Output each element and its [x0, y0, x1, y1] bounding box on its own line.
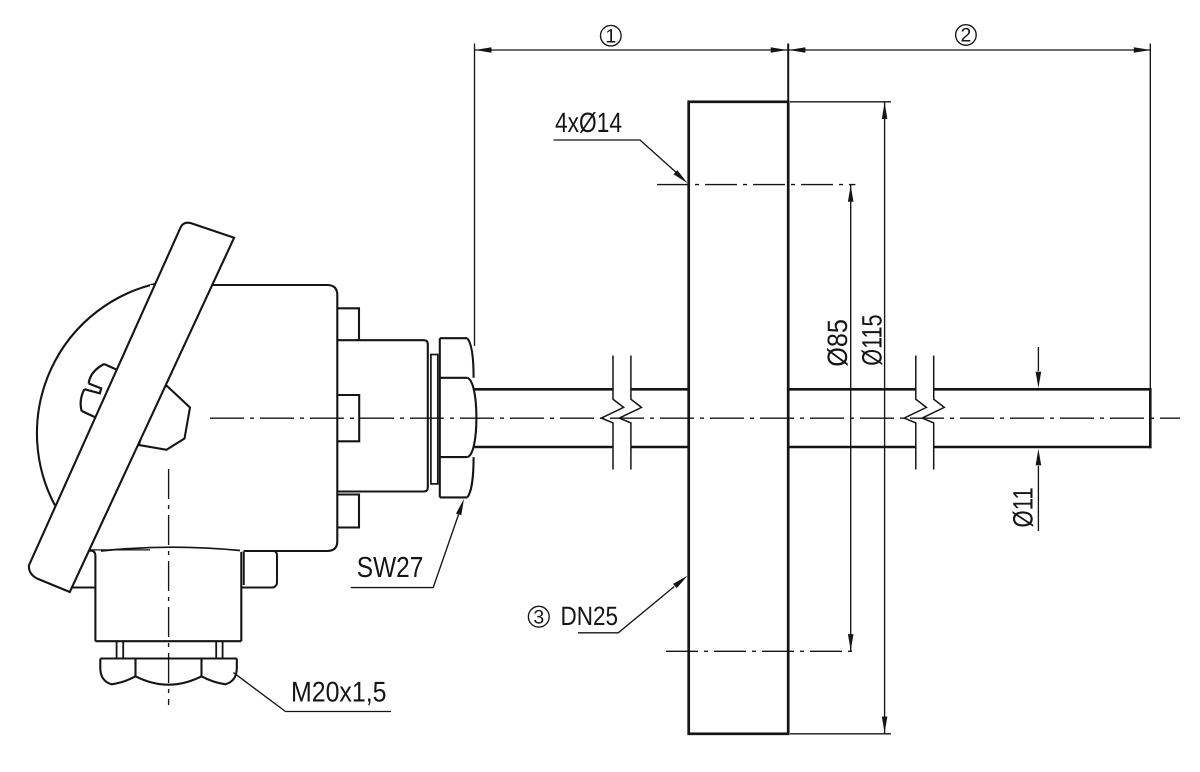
svg-text:SW27: SW27 [357, 552, 424, 584]
lid bracket bar [29, 223, 234, 592]
dome lid arc [37, 284, 157, 506]
main horizontal centerline [210, 417, 1180, 419]
balloon 1 [601, 25, 622, 47]
break symbol 2 right line [922, 356, 944, 470]
label 4xØ14 [554, 107, 688, 183]
break symbol 1 left line [601, 356, 623, 470]
dim Ø11 [1008, 347, 1042, 531]
vertical centerline of neck [168, 469, 170, 705]
arrow dim1 right [771, 47, 788, 53]
arrow dim2 right [1134, 47, 1151, 53]
extension line left at SW27 [474, 44, 476, 347]
top dimension line [475, 49, 1150, 51]
break symbol 2 left line [904, 356, 926, 470]
svg-text:M20x1,5: M20x1,5 [291, 677, 387, 709]
label M20x1,5 [233, 673, 391, 712]
probe top edge [475, 388, 1151, 391]
bottom tab on body right [337, 495, 359, 528]
neck block toward SW27 [337, 340, 428, 491]
extension line right at probe end [1149, 44, 1151, 389]
svg-text:Ø11: Ø11 [1008, 487, 1039, 527]
svg-text:Ø85: Ø85 [822, 319, 853, 367]
extension line middle above flange [787, 44, 789, 102]
svg-text:Ø115: Ø115 [857, 314, 888, 365]
svg-text:1: 1 [605, 25, 616, 47]
head body [150, 285, 337, 551]
SW27 hex nut [440, 338, 477, 497]
dim Ø85 [822, 185, 854, 652]
back plate notch edge right of neck [243, 552, 245, 585]
M20 cable gland hex nut [100, 659, 237, 685]
back plate (lid clamp plate under head body) [65, 550, 277, 587]
svg-text:4xØ14: 4xØ14 [555, 107, 622, 138]
lid screw [81, 364, 118, 417]
balloon 3 and label DN25 [528, 576, 687, 633]
mid tab inside neck block [337, 395, 359, 441]
svg-text:2: 2 [960, 25, 971, 47]
neck (cable-gland neck below head) [89, 551, 242, 642]
collar arc across neck top [101, 547, 240, 551]
label SW27 [351, 499, 464, 588]
break symbol 1 right line [619, 356, 641, 470]
probe right end [1149, 388, 1152, 448]
flange lower bolt centerline [666, 650, 855, 652]
dim Ø115 [790, 102, 891, 734]
thin washer between neck block and hex nut [431, 355, 438, 484]
svg-text:3: 3 [533, 606, 544, 628]
flange DN25 [689, 102, 789, 734]
pentagon hinge lug on body [139, 386, 190, 450]
flange upper bolt centerline [657, 184, 855, 186]
arrow dim2 left [789, 47, 806, 53]
arrow dim1 left [475, 47, 492, 53]
thread stubs above M20 nut [117, 641, 223, 658]
top tab on body right [337, 308, 359, 340]
svg-text:DN25: DN25 [561, 601, 619, 631]
probe bottom edge [475, 446, 1151, 449]
balloon 2 [956, 25, 977, 47]
